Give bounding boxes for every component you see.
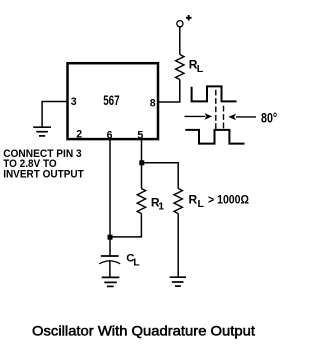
svg-text:INVERT OUTPUT: INVERT OUTPUT — [3, 168, 84, 180]
svg-text:3: 3 — [71, 96, 77, 108]
wire RL to pin 8 — [159, 80, 180, 103]
wire pin3 to ground — [42, 102, 67, 127]
svg-text:2: 2 — [76, 129, 82, 141]
wire junction to RL2 — [142, 163, 179, 189]
svg-text:R: R — [189, 193, 198, 207]
waveform bottom (quadrature) — [185, 130, 244, 144]
capacitor CL — [109, 237, 111, 256]
wire pin 6 down — [109, 139, 111, 237]
ground (RL2) — [170, 277, 186, 286]
svg-text:1: 1 — [158, 201, 164, 213]
svg-text:L: L — [198, 198, 205, 210]
svg-text:L: L — [133, 257, 140, 269]
svg-text:> 1000Ω: > 1000Ω — [208, 193, 249, 207]
svg-text:8: 8 — [150, 97, 156, 109]
supply terminal + — [177, 21, 183, 27]
arrow left — [185, 115, 206, 117]
svg-text:Oscillator With Quadrature Out: Oscillator With Quadrature Output — [32, 323, 255, 339]
dashed line 2 — [223, 106, 225, 129]
resistor RL2 — [174, 189, 182, 214]
waveform top (pin 8 output) — [192, 86, 237, 101]
svg-text:567: 567 — [103, 92, 120, 108]
wire pin 5 down — [141, 139, 143, 189]
wire RL2 to ground — [177, 214, 179, 278]
ground (pin 3) — [33, 127, 51, 136]
resistor R1 — [137, 189, 145, 214]
arrow right — [236, 116, 256, 118]
svg-text:L: L — [197, 63, 204, 75]
ground (CL) — [102, 277, 120, 286]
svg-text:5: 5 — [137, 129, 143, 141]
dashed line 1 — [215, 90, 217, 130]
IC U1 567 tone decoder box — [68, 63, 159, 139]
wire R1 bottom to junction — [110, 214, 141, 237]
wire supply to RL — [179, 27, 181, 55]
node junction pin6/R1/CL — [108, 235, 113, 240]
node junction pin5/RL — [139, 160, 144, 165]
resistor RL (top) — [176, 55, 184, 80]
svg-text:80°: 80° — [261, 111, 277, 126]
